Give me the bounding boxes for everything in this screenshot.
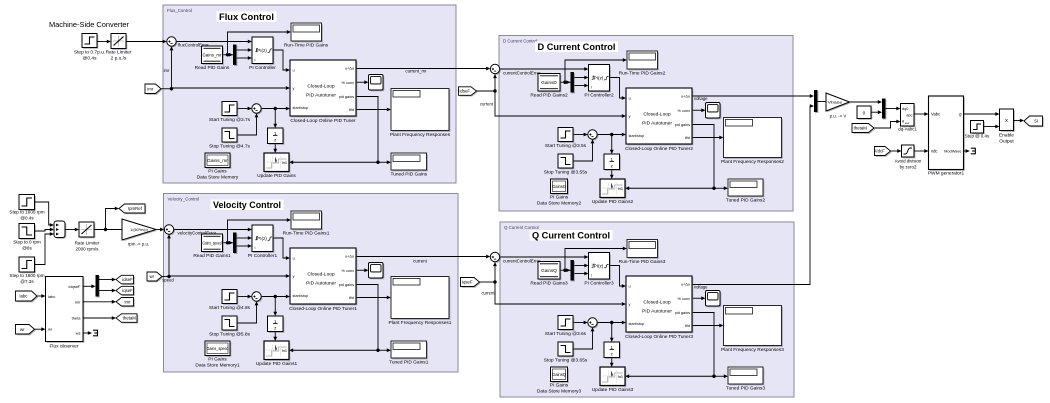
svg-text:iabc: iabc	[20, 294, 29, 299]
svg-text:In1: In1	[282, 349, 287, 353]
svg-text:PID Autotuner: PID Autotuner	[306, 281, 336, 287]
svg-text:I: I	[255, 58, 256, 62]
svg-text:imr: imr	[125, 299, 132, 304]
svg-text:fluxControlError: fluxControlError	[178, 43, 209, 48]
svg-text:PI Gains: PI Gains	[550, 195, 569, 201]
svg-text:PI Gains: PI Gains	[208, 169, 227, 175]
svg-text:PI(z): PI(z)	[257, 48, 267, 53]
svg-text:Closed-Loop Online PID Tuner: Closed-Loop Online PID Tuner	[290, 118, 356, 124]
svg-text:PI(z): PI(z)	[594, 76, 604, 81]
svg-text:Avoid division: Avoid division	[895, 159, 922, 164]
svg-text:GainsQ: GainsQ	[552, 372, 567, 377]
svg-text:tfid: tfid	[349, 296, 354, 300]
svg-text:idseF: idseF	[122, 277, 133, 282]
svg-text:I: I	[591, 274, 592, 278]
svg-text:currentControlError: currentControlError	[503, 71, 541, 76]
svg-text:voltage: voltage	[694, 96, 708, 101]
svg-text:VdcF: VdcF	[875, 149, 885, 154]
svg-text:Data Store Memory3: Data Store Memory3	[537, 389, 582, 395]
svg-text:idseF: idseF	[459, 89, 470, 94]
svg-text:start/stop: start/stop	[293, 106, 309, 110]
svg-text:2000 rpm/s: 2000 rpm/s	[76, 247, 100, 252]
svg-text:I: I	[255, 246, 256, 250]
svg-text:Step @ 0.4s: Step @ 0.4s	[965, 134, 990, 139]
svg-text:Stop Tuning @3.65s: Stop Tuning @3.65s	[544, 358, 588, 364]
svg-text:Update PID Gains1: Update PID Gains1	[256, 361, 298, 367]
svg-text:PI(z): PI(z)	[257, 236, 267, 241]
svg-text:PID Autotuner: PID Autotuner	[306, 93, 336, 99]
svg-text:PI(z): PI(z)	[594, 264, 604, 269]
svg-text:PID Autotuner: PID Autotuner	[642, 309, 672, 315]
svg-text:Gains_speed: Gains_speed	[203, 240, 222, 245]
svg-text:2 p.u./s: 2 p.u./s	[111, 56, 127, 62]
svg-text:Flux observer: Flux observer	[49, 344, 78, 350]
svg-text:thetaM: thetaM	[123, 316, 137, 321]
svg-text:wr: wr	[20, 327, 25, 332]
svg-text:Closed-Loop: Closed-Loop	[307, 84, 335, 90]
svg-text:Run-Time PID Gains2: Run-Time PID Gains2	[619, 71, 666, 77]
svg-text:y: y	[293, 86, 295, 91]
svg-text:y: y	[629, 114, 631, 119]
svg-text:Read PID Gains3: Read PID Gains3	[530, 281, 568, 287]
svg-text:Plant Frequency Responses: Plant Frequency Responses	[390, 132, 451, 138]
svg-text:u+Δu: u+Δu	[681, 283, 690, 287]
svg-text:rpm -> p.u.: rpm -> p.u.	[128, 242, 149, 247]
svg-text:Flux_Control: Flux_Control	[167, 8, 192, 13]
svg-text:start/stop: start/stop	[629, 134, 645, 138]
svg-text:theta: theta	[72, 316, 82, 321]
svg-text:pid gains: pid gains	[675, 123, 690, 127]
svg-text:Velocity_Control: Velocity_Control	[168, 196, 200, 201]
svg-text:Q Current Control: Q Current Control	[504, 225, 539, 230]
svg-text:Gains_mr: Gains_mr	[203, 52, 223, 57]
svg-text:current_mr: current_mr	[405, 68, 427, 73]
svg-text:u: u	[629, 96, 631, 101]
svg-text:Data Store Memory2: Data Store Memory2	[537, 201, 582, 207]
svg-text:% conv: % conv	[342, 81, 355, 85]
svg-text:idqseF: idqseF	[68, 284, 81, 289]
svg-text:start/stop: start/stop	[629, 322, 645, 326]
svg-text:currentControlError: currentControlError	[503, 259, 541, 264]
svg-text:Gains_speed: Gains_speed	[207, 346, 230, 351]
svg-text:% conv: % conv	[678, 297, 691, 301]
svg-text:PID Autotuner: PID Autotuner	[642, 121, 672, 127]
svg-text:tfid: tfid	[349, 108, 354, 112]
svg-text:vdc: vdc	[931, 149, 938, 154]
svg-text:abc: abc	[906, 114, 912, 118]
svg-text:imr: imr	[164, 68, 170, 73]
svg-text:pid gains: pid gains	[339, 283, 354, 287]
svg-text:y: y	[293, 274, 295, 279]
svg-text:Read PID Gains: Read PID Gains	[195, 65, 230, 71]
svg-text:voltage: voltage	[694, 285, 708, 290]
svg-text:Stop Tuning @4.7s: Stop Tuning @4.7s	[209, 144, 250, 150]
svg-text:Rate Limiter: Rate Limiter	[106, 50, 132, 56]
svg-text:GainsQ: GainsQ	[541, 268, 557, 273]
svg-text:PI Controller3: PI Controller3	[584, 281, 614, 287]
svg-text:Tuned PID Gains3: Tuned PID Gains3	[726, 386, 766, 392]
svg-text:x: x	[1005, 118, 1008, 124]
svg-text:@6s: @6s	[22, 246, 32, 251]
svg-text:Plant Frequency Responses3: Plant Frequency Responses3	[721, 347, 784, 353]
svg-text:u+Δu: u+Δu	[681, 95, 690, 99]
svg-text:Output: Output	[999, 139, 1014, 145]
svg-text:Rate Limiter: Rate Limiter	[75, 241, 100, 246]
svg-text:I: I	[591, 86, 592, 90]
svg-text:@7.3s: @7.3s	[20, 279, 34, 284]
svg-text:Read PID Gains2: Read PID Gains2	[530, 93, 568, 99]
svg-text:Read PID Gains1: Read PID Gains1	[193, 253, 231, 259]
svg-text:Closed-Loop Online PID Tuner2: Closed-Loop Online PID Tuner2	[625, 146, 693, 152]
svg-text:GainsD: GainsD	[552, 184, 566, 189]
svg-text:imr: imr	[147, 86, 154, 91]
svg-text:PI Controller1: PI Controller1	[248, 253, 278, 259]
svg-text:Closed-Loop: Closed-Loop	[643, 300, 671, 306]
svg-text:Velocity Control: Velocity Control	[213, 200, 281, 211]
svg-text:Start Tuning @4.8s: Start Tuning @4.8s	[209, 305, 251, 311]
svg-text:Gains_mr: Gains_mr	[207, 158, 228, 163]
svg-text:Enable: Enable	[999, 133, 1014, 139]
svg-text:Start Tuning @3.6s: Start Tuning @3.6s	[545, 331, 587, 337]
svg-text:0: 0	[863, 111, 866, 117]
svg-text:θ: θ	[902, 120, 904, 124]
svg-text:@0.4s: @0.4s	[20, 216, 34, 221]
svg-text:esc: esc	[905, 122, 910, 125]
svg-text:Machine-Side Converter: Machine-Side Converter	[49, 20, 129, 29]
svg-text:iabc: iabc	[48, 294, 55, 299]
svg-text:PI Controller: PI Controller	[249, 65, 276, 71]
svg-text:Update PID Gains3: Update PID Gains3	[592, 387, 634, 393]
svg-text:u+Δu: u+Δu	[345, 67, 354, 71]
svg-text:dq0: dq0	[902, 107, 908, 111]
svg-text:% conv: % conv	[342, 269, 355, 273]
svg-text:D Current Control: D Current Control	[503, 38, 537, 43]
svg-text:pid gains: pid gains	[675, 311, 690, 315]
svg-text:@0.4s: @0.4s	[83, 56, 98, 62]
svg-text:u: u	[293, 68, 295, 73]
svg-text:wr: wr	[48, 327, 53, 332]
svg-text:PI Controller2: PI Controller2	[584, 93, 614, 99]
svg-text:Run-Time PID Gains3: Run-Time PID Gains3	[619, 259, 666, 265]
svg-text:current: current	[413, 259, 427, 264]
svg-text:D Current Control: D Current Control	[538, 42, 616, 53]
svg-text:thetaM: thetaM	[854, 126, 868, 131]
svg-text:u: u	[629, 284, 631, 289]
svg-text:tfid: tfid	[685, 324, 690, 328]
svg-text:velocityControlError: velocityControlError	[178, 231, 217, 236]
svg-text:Start Tuning @3.7s: Start Tuning @3.7s	[209, 117, 251, 123]
svg-text:Closed-Loop Online PID Tuner1: Closed-Loop Online PID Tuner1	[289, 306, 357, 312]
svg-text:PI Gains: PI Gains	[208, 357, 227, 363]
svg-text:Step to 0 rpm: Step to 0 rpm	[13, 240, 41, 245]
svg-text:Step to 1600 rpm: Step to 1600 rpm	[9, 273, 44, 278]
svg-text:Tuned PID Gains2: Tuned PID Gains2	[726, 198, 766, 204]
svg-text:Vbase: Vbase	[828, 100, 844, 105]
svg-text:Flux Control: Flux Control	[219, 12, 274, 23]
svg-text:p.u. -> V: p.u. -> V	[830, 114, 847, 119]
svg-text:y: y	[629, 302, 631, 307]
svg-text:start/stop: start/stop	[293, 294, 309, 298]
svg-text:1/(60*fn/p): 1/(60*fn/p)	[130, 228, 148, 232]
svg-text:Tuned PID Gains1: Tuned PID Gains1	[389, 360, 429, 366]
svg-text:In1: In1	[618, 187, 623, 191]
svg-text:Update PID Gains2: Update PID Gains2	[592, 199, 634, 205]
svg-text:wr: wr	[149, 274, 154, 279]
svg-text:Run-Time PID Gains: Run-Time PID Gains	[284, 43, 329, 49]
svg-text:Start Tuning @3.5s: Start Tuning @3.5s	[545, 143, 587, 149]
svg-text:iqseF: iqseF	[122, 288, 133, 293]
svg-text:SI: SI	[1034, 119, 1038, 124]
svg-text:Stop Tuning @3.55s: Stop Tuning @3.55s	[544, 170, 588, 176]
svg-text:current: current	[480, 101, 494, 106]
svg-text:dq->abc1: dq->abc1	[898, 127, 917, 132]
svg-text:Stop Tuning @5.8s: Stop Tuning @5.8s	[209, 332, 250, 338]
svg-text:by zero2: by zero2	[900, 165, 917, 170]
svg-text:Closed-Loop: Closed-Loop	[643, 112, 671, 118]
svg-text:In1: In1	[618, 375, 623, 379]
svg-text:ModWave: ModWave	[944, 149, 961, 154]
svg-text:Closed-Loop Online PID Tuner3: Closed-Loop Online PID Tuner3	[625, 334, 693, 340]
svg-text:iqseF: iqseF	[462, 280, 473, 285]
svg-text:In1: In1	[282, 161, 287, 165]
svg-text:Step to 0.7p.u.: Step to 0.7p.u.	[74, 50, 105, 56]
svg-text:speed: speed	[162, 278, 174, 283]
svg-text:Data Store Memory: Data Store Memory	[197, 175, 239, 181]
svg-text:u: u	[293, 256, 295, 261]
svg-text:GainsD: GainsD	[541, 80, 557, 85]
svg-text:Update PID Gains: Update PID Gains	[257, 173, 296, 179]
svg-text:Run-Time PID Gains1: Run-Time PID Gains1	[283, 231, 330, 237]
svg-text:imr: imr	[75, 299, 81, 304]
svg-text:tfid: tfid	[685, 136, 690, 140]
svg-text:Step to 1600 rpm: Step to 1600 rpm	[9, 210, 44, 215]
svg-text:rpmRef: rpmRef	[128, 206, 143, 211]
svg-text:% conv: % conv	[678, 109, 691, 113]
svg-text:Plant Frequency Responses2: Plant Frequency Responses2	[721, 159, 784, 165]
svg-text:ws: ws	[76, 330, 81, 335]
svg-text:Tuned PID Gains: Tuned PID Gains	[390, 172, 427, 178]
svg-text:PI Gains: PI Gains	[550, 383, 569, 389]
svg-text:PWM generator1: PWM generator1	[928, 171, 965, 177]
svg-text:Q Current Control: Q Current Control	[532, 231, 610, 242]
svg-text:Data Store Memory1: Data Store Memory1	[195, 363, 240, 369]
svg-text:u+Δu: u+Δu	[345, 255, 354, 259]
svg-text:pid gains: pid gains	[339, 95, 354, 99]
svg-text:Vabc: Vabc	[931, 112, 940, 117]
svg-text:current: current	[481, 290, 495, 295]
svg-text:Closed-Loop: Closed-Loop	[307, 272, 335, 278]
svg-text:Plant Frequency Responses1: Plant Frequency Responses1	[389, 320, 452, 326]
